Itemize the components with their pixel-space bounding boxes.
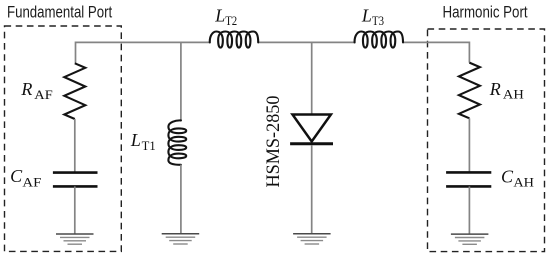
svg-text:L: L	[214, 6, 225, 26]
svg-text:AH: AH	[503, 87, 524, 101]
svg-text:AF: AF	[22, 175, 41, 189]
wire: diode node down to diode	[311, 42, 313, 114]
ground: harmonic branch	[451, 233, 489, 235]
svg-text:L: L	[361, 6, 372, 26]
svg-text:T2: T2	[225, 14, 237, 28]
diode HSMS-2850 triangle	[293, 115, 331, 142]
svg-text:AH: AH	[513, 175, 534, 189]
dashed box: Harmonic Port	[428, 29, 545, 252]
svg-text:L: L	[130, 130, 141, 150]
inductor L_T1	[168, 120, 186, 164]
svg-text:C: C	[10, 166, 23, 186]
wire: L_T2 to L_T3 through diode node	[258, 41, 354, 43]
wire: L_T1 coil to ground	[180, 165, 182, 234]
resistor R_AF	[64, 63, 85, 119]
wire: C_AH to ground	[468, 186, 470, 234]
inductor L_T2	[210, 32, 258, 48]
wire: C_AF to ground	[74, 186, 76, 234]
ground: L_T1 branch	[162, 233, 200, 235]
capacitor C_AF top plate	[53, 171, 98, 174]
node: L_T1 junction, wire down to coil	[180, 42, 182, 120]
resistor R_AH	[459, 63, 480, 119]
capacitor C_AH bottom plate	[446, 185, 491, 188]
diode cathode bar	[290, 142, 333, 145]
capacitor C_AF bottom plate	[53, 185, 98, 188]
svg-text:Fundamental Port: Fundamental Port	[7, 4, 113, 22]
wire: L_T3 to R_AH corner	[403, 42, 469, 62]
ground: fundamental branch	[56, 233, 94, 235]
svg-text:AF: AF	[34, 88, 53, 102]
wire: R_AH to C_AH	[468, 118, 470, 172]
svg-text:T1: T1	[142, 139, 156, 153]
wire: diode to ground	[311, 145, 313, 234]
wire: R_AF to C_AF	[74, 119, 76, 172]
ground: diode branch	[293, 233, 331, 235]
svg-text:C: C	[501, 167, 514, 187]
dashed box: Fundamental Port	[5, 26, 122, 251]
capacitor C_AH top plate	[446, 171, 491, 174]
svg-text:HSMS-2850: HSMS-2850	[263, 96, 284, 188]
svg-text:T3: T3	[372, 14, 384, 28]
wire: top bus from R_AF corner to L_T2	[76, 42, 210, 63]
svg-text:R: R	[489, 79, 501, 99]
svg-text:Harmonic Port: Harmonic Port	[443, 4, 529, 22]
inductor L_T3	[355, 32, 403, 48]
svg-text:R: R	[20, 79, 32, 99]
